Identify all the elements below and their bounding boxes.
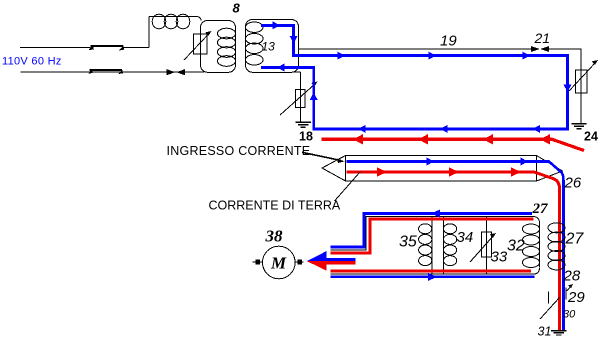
svg-text:27: 27 xyxy=(532,201,549,217)
svg-text:21: 21 xyxy=(534,30,551,46)
svg-text:24: 24 xyxy=(584,130,598,144)
svg-text:INGRESSO CORRENTE: INGRESSO CORRENTE xyxy=(167,144,311,158)
svg-text:30: 30 xyxy=(563,309,576,321)
svg-text:13: 13 xyxy=(262,39,276,53)
svg-text:8: 8 xyxy=(233,1,241,16)
svg-text:19: 19 xyxy=(440,33,457,50)
svg-text:31: 31 xyxy=(538,324,552,338)
svg-text:M: M xyxy=(270,254,287,273)
svg-text:38: 38 xyxy=(265,227,284,246)
svg-text:110V 60 Hz: 110V 60 Hz xyxy=(2,56,62,68)
svg-text:32: 32 xyxy=(507,238,525,255)
svg-text:18: 18 xyxy=(299,130,313,144)
svg-text:35: 35 xyxy=(399,234,417,251)
svg-text:27: 27 xyxy=(565,231,585,248)
svg-text:26: 26 xyxy=(564,175,582,192)
svg-text:34: 34 xyxy=(457,229,474,246)
svg-text:29: 29 xyxy=(567,289,585,306)
svg-text:33: 33 xyxy=(491,249,508,266)
svg-text:CORRENTE DI TERRA: CORRENTE DI TERRA xyxy=(209,199,341,213)
svg-text:28: 28 xyxy=(563,268,581,285)
